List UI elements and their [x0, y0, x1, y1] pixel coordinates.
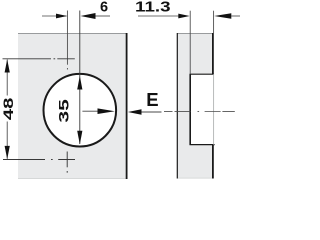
faint inner face line across cutout	[213, 74, 215, 144]
side view inner face line C (above cutout)	[212, 33, 214, 74]
extension line for 11.3 (hole bottom)	[189, 11, 191, 74]
dim E arrow	[138, 111, 162, 113]
front view door panel	[18, 33, 127, 179]
cup centerline vertical	[79, 11, 81, 145]
side view inner face line C (below cutout)	[212, 145, 214, 179]
svg-text:E: E	[146, 89, 158, 110]
dim 35 arrow down	[77, 131, 82, 145]
svg-text:35: 35	[56, 98, 71, 122]
extension line for 11.3 (door inner face)	[213, 11, 215, 33]
dim 6 left extension / screw hole centerline	[66, 11, 68, 65]
dim 35 arrow up	[77, 76, 82, 90]
top screw hole centerline horizontal	[3, 58, 75, 60]
svg-text:6: 6	[100, 0, 108, 16]
svg-text:11.3: 11.3	[135, 0, 171, 16]
bottom screw hole cross	[3, 152, 75, 173]
dim 6 dimension line	[42, 15, 67, 17]
side view door panel	[177, 33, 213, 179]
horizontal centerline dashes (side view)	[164, 111, 235, 113]
cutout bottom edge	[190, 144, 215, 146]
cutout top edge	[190, 73, 214, 75]
dim 48 dimension line	[6, 60, 8, 96]
svg-text:48: 48	[0, 97, 16, 120]
door edge line (front view right edge)	[126, 33, 128, 179]
side view cup hole cutout	[190, 74, 213, 144]
leader arrow to circle edge	[82, 110, 99, 112]
cup hole circle 35mm	[44, 74, 117, 147]
cutout left wall (hole bottom)	[189, 74, 191, 145]
side view outer face line A	[176, 33, 178, 179]
dim 11.3 dimension line	[138, 15, 179, 17]
